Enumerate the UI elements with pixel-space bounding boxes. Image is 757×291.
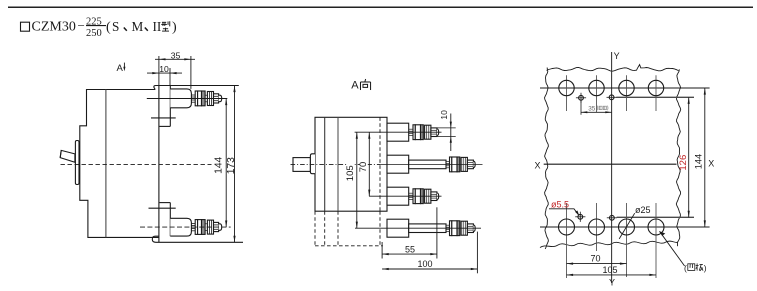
svg-text:(: (: [106, 20, 111, 35]
svg-text:250: 250: [86, 28, 102, 39]
svg-text:ø5.5: ø5.5: [551, 199, 569, 209]
dim 70 vertical: [358, 132, 370, 196]
handle centerline: [61, 164, 212, 166]
handle shaft: [293, 154, 315, 174]
dim 10 stud diameter: [437, 110, 456, 151]
svg-text:105: 105: [345, 165, 356, 181]
bottom small hole o5.5 left: [575, 212, 585, 222]
dim 144 right: [694, 88, 706, 227]
pole 4 long stud: [409, 221, 476, 236]
svg-text:10: 10: [159, 64, 169, 74]
view title A xiang: [351, 79, 370, 91]
svg-text:II: II: [153, 19, 162, 34]
pole 1 terminal tab: [387, 123, 409, 141]
top hole o25 pole 3: [619, 75, 634, 111]
svg-text:173: 173: [226, 157, 237, 174]
top small hole o5.5 left: [576, 93, 586, 103]
dim 100 horizontal: [382, 232, 477, 274]
svg-text:A: A: [117, 63, 124, 74]
bottom small hole row extension: [617, 216, 694, 218]
top hole row centerline: [540, 87, 710, 89]
shaft centerline: [291, 163, 381, 165]
label o25: [619, 205, 650, 239]
svg-text:144: 144: [213, 156, 224, 173]
svg-text:126: 126: [678, 155, 689, 171]
bracket top edge line to 173 extension: [156, 85, 239, 87]
svg-text:ø25: ø25: [635, 205, 651, 215]
pole 2 centerline: [380, 163, 483, 165]
svg-text:10: 10: [439, 110, 449, 120]
top hole o25 pole 4: [648, 75, 663, 111]
title text CZM30-225/250 (S, M, II type): [32, 17, 178, 39]
top small hole row extension: [616, 96, 694, 98]
dim 173 vertical: [226, 86, 237, 243]
svg-text:S: S: [112, 19, 119, 34]
pole 4 terminal tab: [387, 219, 409, 237]
dim 10 top: [147, 64, 182, 86]
dim 126 red: [678, 97, 690, 217]
svg-text:A: A: [351, 79, 359, 91]
top border rule: [8, 6, 753, 8]
bottom hole o25 pole 2: [589, 203, 605, 251]
body hidden line right: [379, 117, 381, 211]
pole 3 terminal tab: [387, 187, 409, 205]
bottom stud thread: [191, 224, 195, 231]
pole 1 centerline: [355, 131, 442, 133]
svg-text:−: −: [78, 18, 85, 33]
svg-text:105: 105: [603, 265, 618, 275]
svg-text:70: 70: [591, 254, 601, 264]
dim 105 bottom: [567, 265, 657, 276]
title checkbox: [21, 22, 30, 31]
top small hole o5.5 on axis: [607, 95, 617, 100]
svg-text:35: 35: [171, 51, 181, 61]
bottom hole o25 pole 3: [619, 203, 635, 277]
pole 3 stud nuts: [409, 189, 439, 204]
body internal line 2: [337, 117, 339, 211]
view arrow label A: [117, 63, 126, 74]
bottom hole o25 pole 4: [648, 203, 664, 278]
pole 1 stud nuts: [409, 125, 439, 140]
top stud washer and nuts: [195, 91, 213, 106]
svg-text:144: 144: [694, 154, 704, 170]
breaker body outline (side view): [80, 86, 159, 238]
dim 55 horizontal: [382, 207, 437, 258]
bottom terminal block: [170, 218, 191, 236]
pole 2 terminal tab: [387, 155, 409, 173]
bottom stud washer and nuts: [195, 220, 213, 235]
svg-text:35: 35: [588, 106, 596, 113]
panel torn edge outline: [540, 65, 681, 249]
top hole o25 pole 1: [559, 75, 574, 111]
svg-text:70: 70: [358, 162, 369, 173]
svg-text:55: 55: [405, 244, 415, 254]
top terminal bracket plate: [151, 86, 176, 127]
bottom terminal centerline: [140, 226, 231, 228]
dim 35 between small holes: [581, 101, 612, 115]
breaker body (top view): [315, 117, 387, 211]
svg-text:Y: Y: [614, 51, 620, 61]
bottom small hole o5.5 on axis: [607, 215, 617, 220]
bottom terminal bracket plate: [149, 203, 244, 243]
top stud end: [214, 94, 222, 103]
body internal line 1: [324, 117, 326, 211]
svg-text:Y: Y: [609, 278, 615, 288]
dashed 4-pole extension outline: [315, 211, 383, 246]
body face line: [105, 90, 107, 238]
handle escutcheon strip: [75, 141, 79, 185]
top terminal centerline: [147, 98, 228, 100]
bottom stud end: [214, 222, 222, 231]
top terminal block: [170, 89, 191, 108]
dim 105 vertical: [345, 132, 358, 228]
svg-text:M: M: [132, 19, 144, 34]
svg-text:X: X: [708, 158, 714, 168]
svg-text:100: 100: [418, 259, 433, 269]
dim 70 bottom: [567, 254, 627, 265]
dim 144 vertical: [213, 99, 227, 228]
svg-text:X: X: [535, 160, 541, 170]
top hole o25 pole 2: [589, 75, 604, 112]
bottom hole row centerline: [540, 226, 710, 228]
pole 2 long stud: [409, 157, 476, 172]
toggle handle: [60, 150, 75, 162]
Y axis: [609, 51, 620, 287]
svg-text:): ): [704, 263, 707, 273]
pole 4 centerline: [355, 227, 481, 229]
svg-text:CZM30: CZM30: [32, 20, 76, 35]
label four-pole: [660, 231, 707, 272]
top stud thread: [191, 95, 195, 102]
X axis: [535, 158, 715, 170]
svg-text:): ): [172, 20, 177, 35]
dim 35 top: [155, 51, 195, 89]
svg-text:(: (: [684, 263, 687, 273]
body right edge: [158, 86, 160, 243]
pole 3 centerline: [369, 195, 442, 197]
label o5.5 red: [549, 199, 579, 216]
bottom hole o25 pole 1: [559, 203, 575, 278]
